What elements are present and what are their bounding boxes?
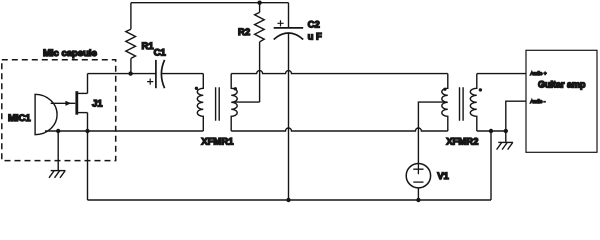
- wire: J1 drain riser to node A: [87, 74, 89, 94]
- node A wire: J1 drain to R1 and C1: [88, 73, 156, 75]
- wire: source node to XFMR1 primary bottom: [88, 130, 204, 132]
- XFMR1 secondary winding: [231, 74, 237, 131]
- resistor R2: [255, 3, 265, 102]
- J1 channel bar: [75, 91, 78, 115]
- XFMR2 secondary phase dot: [479, 88, 482, 91]
- arrow into J1 gate: [65, 101, 71, 106]
- junction dot J1 source node: [85, 129, 89, 133]
- svg-text:J1: J1: [92, 99, 103, 110]
- junction dot V1 at rail: [416, 198, 420, 202]
- junction dot R2 top rail: [257, 1, 261, 5]
- XFMR2 primary winding: [442, 74, 448, 131]
- J1 drain stub: [78, 92, 88, 94]
- XFMR2 core: [460, 87, 464, 121]
- transformer XFMR2: [442, 74, 482, 131]
- junction dot audio minus node: [504, 129, 508, 133]
- XFMR1 core: [216, 87, 220, 121]
- junction dot mic bottom: [56, 129, 60, 133]
- svg-text:Audio +: Audio +: [530, 71, 547, 77]
- svg-text:C1: C1: [154, 48, 167, 59]
- voltage source V1: [406, 164, 430, 188]
- XFMR2 secondary winding: [470, 74, 477, 131]
- wire: R2 tap line to XFMR1 secondary: [232, 101, 260, 103]
- svg-text:R1: R1: [142, 41, 155, 52]
- svg-text:R2: R2: [238, 27, 250, 38]
- wire: audio minus run to amp: [506, 101, 526, 131]
- wire: bottom ground rail: [88, 199, 492, 201]
- XFMR2 primary phase dot: [443, 88, 446, 91]
- wire: mic top terminal to J1 gate with arrow: [51, 102, 75, 104]
- dashed box mic capsule: [2, 60, 116, 161]
- wire: C2 bottom to ground rail (crosses two hop lines): [288, 33, 290, 200]
- svg-text:XFMR2: XFMR2: [446, 137, 478, 148]
- svg-text:u F: u F: [308, 32, 322, 43]
- microphone MIC1: [35, 94, 57, 134]
- J1 source stub: [78, 112, 88, 114]
- svg-text:Mic capsule: Mic capsule: [43, 48, 97, 59]
- wire: XFMR2 secondary top to amp Audio +: [477, 73, 526, 75]
- svg-text:Guitar amp: Guitar amp: [538, 79, 586, 89]
- ground (near amp): [497, 131, 513, 150]
- junction dot C2 vertical at rail: [286, 198, 290, 202]
- svg-text:V1: V1: [437, 171, 449, 182]
- ground (mic capsule): [49, 131, 65, 178]
- wire: V1 top riser to XFMR2 primary tap: [418, 102, 447, 163]
- svg-text:XFMR1: XFMR1: [201, 137, 234, 148]
- wire: XFMR1 secondary bottom to XFMR2 primary bottom (hops over C2 and V1 verticals): [231, 128, 448, 131]
- transformer XFMR1: [195, 74, 238, 131]
- XFMR1 secondary phase dot: [234, 87, 237, 90]
- resistor R1: [126, 3, 136, 74]
- wire: top supply rail: [131, 2, 289, 4]
- wire: XFMR2 secondary bottom line: [477, 130, 506, 132]
- wire: riser from bottom rail: [490, 131, 492, 200]
- junction dot node A / R1: [128, 71, 132, 75]
- svg-text:C2: C2: [308, 20, 320, 31]
- transistor J1 (JFET): [77, 91, 88, 115]
- wire: C1 to XFMR1 primary top: [161, 73, 203, 75]
- wire: XFMR1 secondary top to XFMR2 primary top (hops over R2 and C2 verticals): [231, 71, 448, 74]
- wire: J1 source down to bottom rail: [87, 113, 89, 200]
- svg-text:Audio -: Audio -: [530, 99, 546, 105]
- wire: mic bottom terminal line: [45, 130, 88, 132]
- junction dot rail riser: [489, 129, 493, 133]
- capacitor C2: [274, 3, 304, 40]
- guitar amp box: [526, 50, 597, 152]
- XFMR1 primary winding: [197, 74, 203, 131]
- XFMR1 primary phase dot: [195, 87, 198, 90]
- capacitor C1: [147, 60, 165, 88]
- svg-text:MIC1: MIC1: [8, 113, 31, 124]
- wire: V1 bottom to rail: [417, 188, 419, 200]
